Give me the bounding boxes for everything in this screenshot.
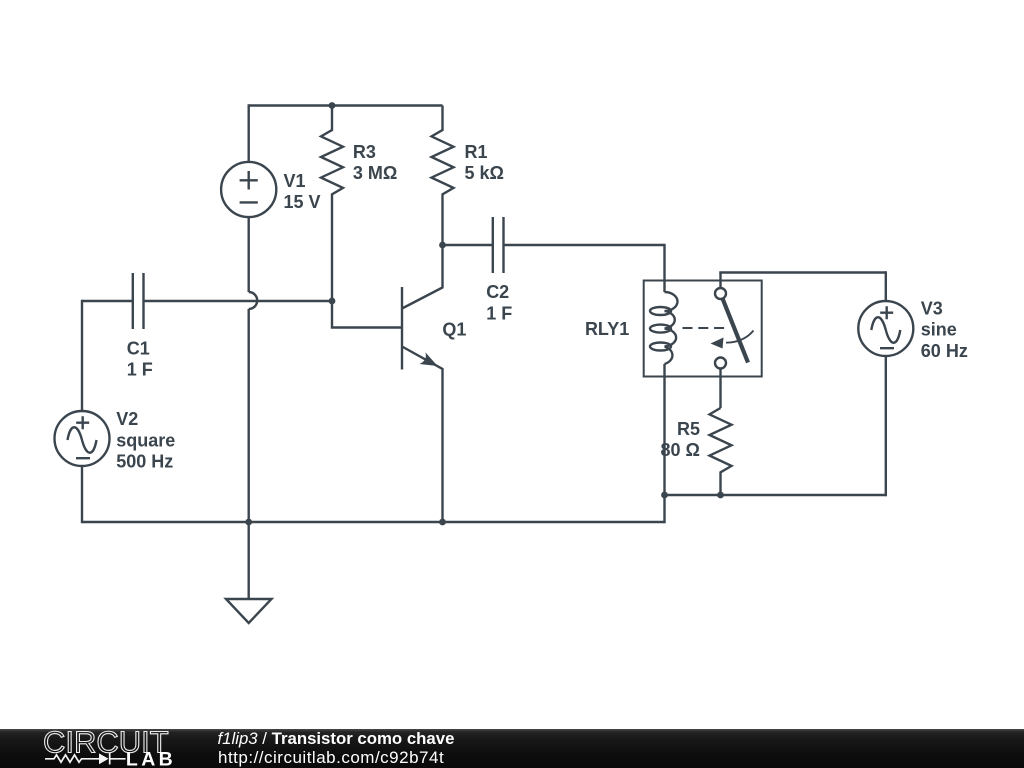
svg-text:V1: V1	[284, 171, 306, 191]
svg-text:RLY1: RLY1	[585, 319, 629, 339]
svg-text:V3: V3	[921, 298, 943, 318]
svg-text:60 Hz: 60 Hz	[921, 341, 968, 361]
svg-text:C2: C2	[486, 282, 509, 302]
svg-text:3 MΩ: 3 MΩ	[353, 163, 397, 183]
svg-text:5 kΩ: 5 kΩ	[465, 163, 504, 183]
svg-text:R3: R3	[353, 142, 376, 162]
svg-text:C1: C1	[127, 338, 150, 358]
svg-text:R1: R1	[465, 142, 488, 162]
svg-text:V2: V2	[116, 409, 138, 429]
svg-text:LAB: LAB	[126, 748, 176, 768]
svg-text:15 V: 15 V	[284, 192, 321, 212]
svg-text:500 Hz: 500 Hz	[116, 452, 173, 472]
svg-text:1 F: 1 F	[127, 360, 153, 380]
svg-text:square: square	[116, 430, 175, 450]
svg-text:80 Ω: 80 Ω	[661, 440, 700, 460]
svg-text:1 F: 1 F	[486, 303, 512, 323]
svg-text:R5: R5	[677, 419, 700, 439]
svg-text:sine: sine	[921, 320, 957, 340]
svg-text:Q1: Q1	[442, 320, 466, 340]
